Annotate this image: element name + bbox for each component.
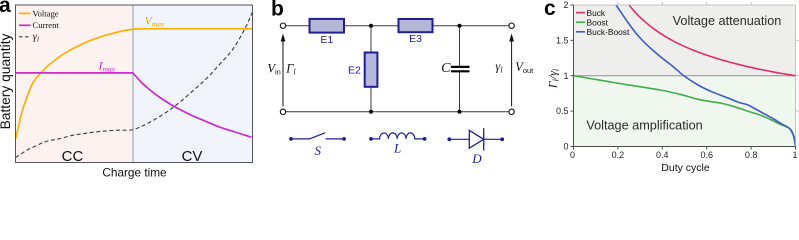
voltage curve (orange)	[16, 29, 253, 139]
diode D anode triangle	[469, 130, 483, 148]
degradation dashed curve	[16, 12, 253, 158]
unity ratio line	[574, 75, 796, 77]
svg-text:1: 1	[792, 150, 797, 160]
inductor L label	[393, 141, 401, 156]
diode D cathode bar	[483, 129, 485, 150]
legend voltage sample	[19, 12, 31, 14]
svg-text:E2: E2	[348, 65, 361, 77]
svg-text:2: 2	[563, 0, 568, 10]
switch S blade	[309, 133, 325, 139]
svg-text:γl: γl	[495, 60, 503, 75]
svg-text:1: 1	[563, 71, 568, 81]
CC/CV divider line	[132, 5, 134, 163]
svg-text:Γl: Γl	[285, 62, 296, 77]
svg-text:Charge time: Charge time	[102, 165, 167, 179]
x axis label Duty cycle	[661, 162, 710, 174]
switch S left lead wire	[291, 138, 309, 140]
CC label	[62, 148, 84, 165]
node N2 junction dot (E3/C junction, top)	[458, 24, 462, 28]
diode D right lead wire	[484, 138, 503, 140]
element E3 body	[399, 19, 433, 32]
svg-text:E1: E1	[320, 34, 333, 46]
inductor L right node dot	[423, 137, 427, 141]
V_in arrow	[281, 34, 286, 107]
element E1 label	[320, 34, 333, 46]
legend Buck sample	[576, 12, 585, 14]
voltage attenuation region (gray)	[574, 5, 796, 76]
wire E2 top lead	[370, 26, 372, 53]
legend current text	[33, 20, 60, 30]
V_in label	[267, 62, 280, 77]
element E1 body	[310, 19, 345, 33]
legend Boost text	[587, 17, 609, 27]
node N1 junction dot (E1/E2 junction, top)	[369, 24, 373, 28]
switch S label	[314, 143, 321, 158]
I_max label	[98, 58, 116, 73]
right spine ticks	[796, 40, 799, 111]
node N4 junction dot (C bottom rail)	[458, 110, 462, 114]
svg-text:Buck-Boost: Buck-Boost	[587, 27, 630, 37]
voltage amplification region (green)	[574, 76, 796, 147]
svg-text:Boost: Boost	[587, 17, 609, 27]
svg-text:0: 0	[563, 142, 568, 152]
svg-text:L: L	[393, 141, 401, 156]
capacitor C label	[441, 61, 451, 76]
top axis spine	[574, 4, 796, 6]
diode D left node dot	[447, 137, 451, 141]
CV label	[182, 148, 203, 165]
legend Buck-Boost text	[587, 27, 630, 37]
capacitor C bottom plate	[452, 70, 469, 72]
Gamma_l label	[285, 62, 296, 77]
y axis label Gamma_l/gamma_l	[546, 68, 561, 89]
svg-text:Voltage attenuation: Voltage attenuation	[673, 14, 782, 28]
left axis spine	[573, 5, 575, 147]
gamma_l label	[495, 60, 503, 75]
wire E2 bottom lead	[370, 87, 372, 112]
svg-text:0.5: 0.5	[556, 106, 569, 116]
panel label a	[0, 0, 11, 17]
svg-text:Duty cycle: Duty cycle	[661, 162, 710, 174]
Buck curve (pink)	[629, 5, 796, 76]
svg-text:CC: CC	[62, 148, 84, 165]
y axis label Battery quantity	[0, 33, 13, 129]
inductor L left node dot	[369, 137, 373, 141]
svg-text:Vout: Vout	[515, 60, 534, 75]
switch S right node dot	[342, 137, 346, 141]
svg-text:E3: E3	[409, 33, 422, 45]
x axis ticks	[574, 147, 796, 150]
Buck-Boost curve (blue)	[616, 5, 796, 146]
svg-text:C: C	[441, 61, 451, 76]
svg-text:0.4: 0.4	[656, 150, 669, 160]
legend voltage text	[33, 8, 59, 18]
svg-text:0.8: 0.8	[745, 150, 758, 160]
inductor L right lead wire	[415, 138, 425, 140]
V_out label	[515, 60, 534, 75]
element E2 label	[348, 65, 361, 77]
svg-text:1.5: 1.5	[556, 35, 569, 45]
output terminal top (open circle)	[509, 23, 514, 28]
inductor L left lead wire	[371, 138, 380, 140]
right axis spine	[795, 5, 797, 147]
legend current sample	[19, 24, 31, 26]
svg-text:Buck: Buck	[587, 8, 606, 18]
x tick labels	[570, 150, 798, 160]
wire capacitor bottom lead	[459, 72, 461, 112]
x axis label Charge time	[102, 165, 167, 179]
svg-text:Voltage amplification: Voltage amplification	[586, 118, 702, 132]
diode D left lead wire	[449, 138, 469, 140]
plot border box	[16, 5, 253, 163]
CC region background	[16, 5, 134, 163]
input terminal top (open circle)	[280, 23, 285, 28]
input terminal bottom (open circle)	[280, 109, 285, 114]
output arrow (gamma_l / V_out)	[509, 34, 514, 107]
svg-text:b: b	[271, 0, 284, 21]
top spine ticks	[618, 2, 751, 5]
switch S right lead wire	[326, 138, 344, 140]
svg-text:S: S	[314, 143, 321, 158]
element E3 label	[409, 33, 422, 45]
wire top rail: E1 to E3 (through node N1)	[344, 25, 399, 27]
svg-text:CV: CV	[182, 148, 203, 165]
wire top rail: E3 to output terminal (through node N2)	[433, 25, 509, 27]
capacitor C top plate	[452, 66, 469, 68]
legend gamma dashed sample	[19, 36, 31, 38]
legend gamma_l text	[33, 32, 39, 44]
Boost curve (green)	[574, 76, 796, 147]
CV region background	[133, 5, 253, 163]
V_max label	[145, 13, 166, 28]
svg-text:a: a	[0, 0, 11, 17]
current line (magenta) flat then decay	[16, 73, 252, 137]
svg-text:D: D	[471, 151, 482, 166]
bottom axis spine	[574, 146, 796, 148]
svg-text:Γl/γl: Γl/γl	[546, 68, 561, 89]
panel label c	[544, 0, 556, 20]
svg-text:Current: Current	[33, 20, 60, 30]
svg-text:Voltage: Voltage	[33, 8, 59, 18]
diode D label	[471, 151, 482, 166]
switch S left node dot	[289, 137, 293, 141]
wire capacitor top lead	[459, 26, 461, 66]
svg-text:0: 0	[570, 150, 575, 160]
wire bottom rail	[286, 111, 509, 113]
svg-text:Vin: Vin	[267, 62, 280, 77]
region label Voltage amplification	[586, 118, 702, 132]
legend Buck text	[587, 8, 606, 18]
svg-text:0.2: 0.2	[612, 150, 625, 160]
inductor L coil	[380, 133, 415, 139]
svg-text:c: c	[544, 0, 556, 20]
node N3 junction dot (E2 bottom rail)	[369, 110, 373, 114]
output terminal bottom (open circle)	[509, 109, 514, 114]
diode D right node dot	[500, 137, 504, 141]
panel label b	[271, 0, 284, 21]
region label Voltage attenuation	[673, 14, 782, 28]
y axis ticks	[571, 5, 574, 147]
svg-text:Battery quantity: Battery quantity	[0, 33, 13, 129]
wire top rail: input terminal to E1	[286, 25, 310, 27]
y tick labels	[556, 0, 569, 152]
element E2 body	[365, 53, 378, 87]
svg-text:0.6: 0.6	[700, 150, 713, 160]
legend Boost sample	[576, 21, 585, 23]
legend Buck-Boost sample	[576, 31, 585, 33]
